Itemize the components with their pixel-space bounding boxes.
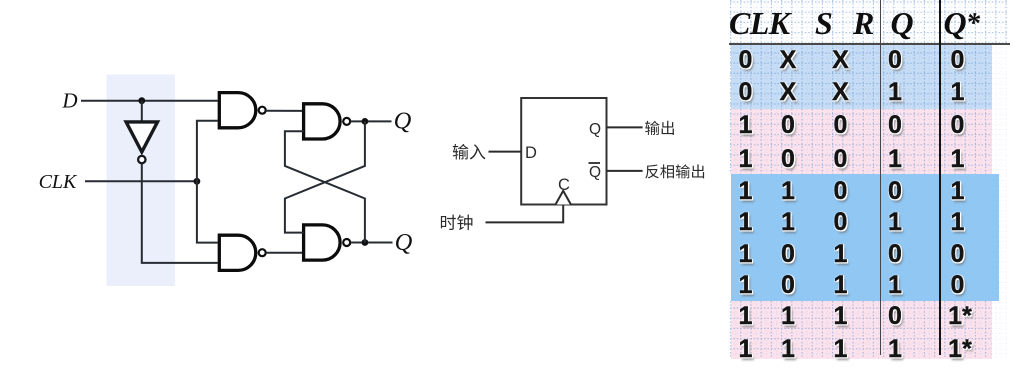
truth table row band rows5-8: [731, 174, 999, 301]
header S: [815, 7, 832, 39]
label shuru: [453, 144, 486, 160]
node D junction: [138, 97, 145, 104]
truth table row band rows9-10: [731, 301, 993, 359]
U1 output bubble: [259, 107, 266, 114]
nand gate U4 (latch bottom): [304, 225, 340, 260]
wire CLK to bottom NAND: [197, 181, 218, 242]
clock edge triangle: [556, 191, 571, 205]
wire cross feedback Q to U4 input: [285, 121, 365, 232]
header Q: [891, 7, 914, 39]
inverter bubble: [138, 156, 145, 163]
row 3 cells: [724, 111, 768, 139]
svg-text:D: D: [525, 144, 537, 162]
header CLK: [729, 7, 789, 39]
wire inverter output to bottom NAND: [142, 164, 218, 263]
U3 output bubble: [343, 118, 350, 125]
label CLK: [39, 171, 78, 193]
row 2 cells: [724, 78, 768, 106]
svg-text:D: D: [61, 89, 77, 113]
U2 output bubble: [259, 249, 266, 256]
pin label C: [558, 176, 570, 194]
inverter U5: [126, 122, 157, 152]
pin label D: [525, 144, 537, 162]
label fanxiang shuchu: [645, 164, 704, 178]
row 5 cells: [724, 177, 768, 205]
svg-text:Q: Q: [395, 229, 413, 256]
wire CLK to top NAND: [197, 121, 218, 182]
wire input D: [489, 151, 522, 153]
label shizhong: [441, 215, 473, 231]
row 7 cells: [724, 240, 768, 268]
label D: [61, 89, 77, 113]
svg-text:CLK: CLK: [39, 171, 78, 193]
wire U2 out to U4: [266, 252, 302, 254]
row 6 cells: [724, 208, 768, 236]
U4 output bubble: [343, 239, 350, 246]
nand gate U1 (top steering): [219, 93, 256, 128]
pin label Q: [589, 121, 601, 138]
wire output Qbar: [607, 170, 643, 172]
table vertical line 1: [880, 0, 881, 355]
wire D input: [81, 100, 218, 102]
row 4 cells: [724, 145, 768, 173]
header R: [853, 7, 874, 39]
row 9 cells: [724, 302, 768, 330]
wire cross feedback Q2 to U3 input: [285, 131, 365, 242]
label Q top: [394, 108, 412, 135]
row 8 cells: [724, 271, 768, 299]
nand gate U3 (latch top): [304, 104, 340, 139]
node Q junction: [362, 118, 369, 125]
wire U3 output to Q: [350, 120, 391, 122]
node CLK junction: [194, 178, 201, 185]
svg-text:Q: Q: [589, 121, 601, 138]
wire output Q: [607, 126, 643, 128]
highlight band behind inverter: [107, 75, 176, 287]
nand gate U2 (bottom steering): [219, 235, 255, 270]
row 10 cells: [724, 335, 768, 363]
truth table row band rows1-2: [731, 45, 993, 110]
node Q2 junction: [362, 239, 369, 246]
wire CLK input: [85, 180, 197, 182]
wire U4 output to Q2: [350, 242, 392, 244]
table vertical line 2: [939, 0, 941, 355]
label shuchu: [645, 121, 674, 135]
wire clock: [486, 205, 564, 223]
flip-flop box U6: [521, 98, 606, 205]
svg-text:Q: Q: [589, 164, 601, 181]
pin label Qbar: [589, 163, 602, 181]
truth table row band rows3-4: [731, 109, 993, 174]
wire U1 out to U3: [266, 110, 302, 112]
graph-paper dotted grid: [727, 0, 1008, 362]
header Q*: [944, 7, 980, 40]
row 1 cells: [724, 46, 768, 74]
wire D to inverter: [141, 101, 143, 121]
label Q bottom: [395, 229, 413, 256]
header rule: [729, 43, 1010, 45]
svg-text:Q: Q: [394, 108, 412, 135]
